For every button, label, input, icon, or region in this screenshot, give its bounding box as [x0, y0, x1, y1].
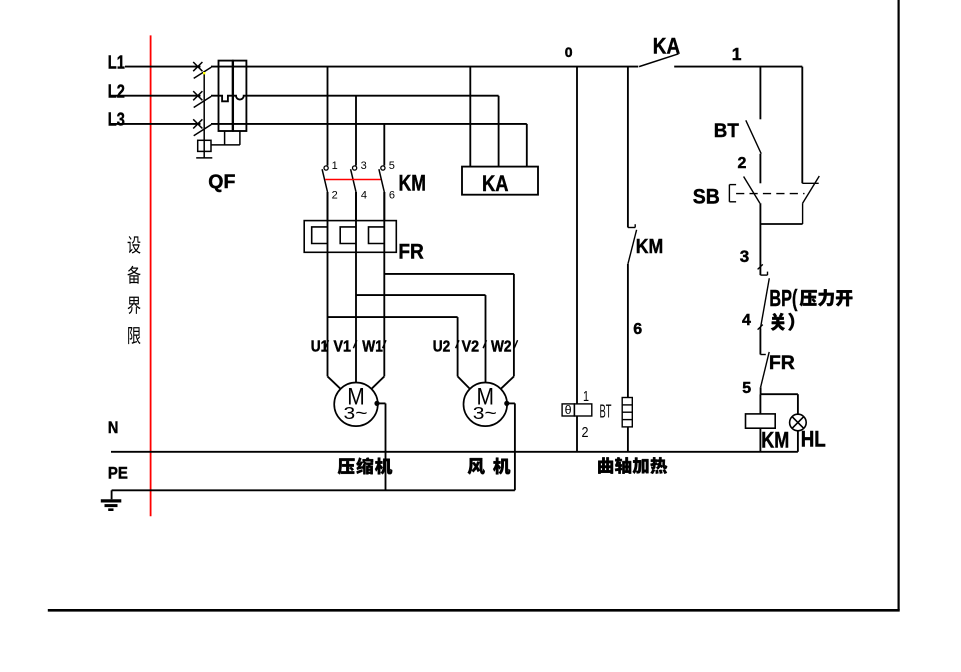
svg-text:KM: KM: [399, 171, 426, 196]
svg-text:KA: KA: [482, 171, 509, 196]
svg-text:N: N: [108, 418, 119, 437]
indicator lamp HL: [790, 414, 807, 431]
svg-text:1: 1: [732, 44, 742, 64]
wire L3 phase line: [110, 123, 527, 125]
wire node 1 down to BT contact: [759, 67, 761, 120]
wire thermostat to N: [576, 416, 578, 452]
wire L1 to KM contact 1: [327, 67, 329, 166]
pressure switch BP: [760, 272, 769, 329]
node 3 terminal mark: [758, 264, 763, 269]
svg-text:0: 0: [565, 44, 573, 60]
wire phase C to motor M1: [371, 192, 384, 389]
svg-text:QF: QF: [208, 171, 235, 193]
circuit breaker QF: [193, 61, 246, 158]
svg-text:6: 6: [389, 189, 395, 201]
wire L2 phase line (with QF trip-element dips): [110, 96, 499, 102]
ground symbol: [101, 501, 122, 510]
wire junction to node 3: [759, 224, 761, 275]
wire phase B tap to motor M2: [356, 295, 486, 382]
svg-text:L1: L1: [108, 53, 125, 73]
wire L1 to KA coil: [469, 67, 471, 167]
wire L2 to KA coil: [498, 96, 500, 167]
svg-text:5: 5: [742, 380, 751, 397]
heater element BT (crankcase heater): [622, 398, 632, 427]
svg-text:1: 1: [583, 388, 589, 405]
wire BT to SB: [759, 154, 761, 184]
svg-text:HL: HL: [801, 427, 826, 452]
svg-text:θ: θ: [565, 405, 572, 417]
wire node 5 junction: [760, 387, 798, 414]
svg-text:KM: KM: [636, 236, 664, 258]
thermostat BT (temperature switch): [562, 404, 592, 417]
svg-text:L2: L2: [108, 82, 125, 102]
svg-text:KM: KM: [761, 427, 789, 452]
svg-text:FR: FR: [769, 353, 795, 374]
switch SB (manual changeover): [729, 177, 804, 204]
svg-text:2: 2: [738, 155, 747, 172]
wire L1 phase line: [125, 66, 638, 68]
contactor aux contact KM (NO): [628, 224, 637, 264]
svg-text:3~: 3~: [473, 403, 497, 423]
motor M2 (M 3~): [464, 383, 508, 427]
wire L2 to KM contact 3: [355, 96, 357, 166]
svg-text:KA: KA: [653, 34, 680, 59]
contactor coil KM: [746, 414, 776, 428]
relay coil KA: [462, 167, 538, 195]
wire node 1 right branch down: [801, 67, 803, 184]
junction dot motor M2 PE: [504, 401, 509, 406]
KM mechanical link (red): [325, 179, 380, 181]
terminal labels U2 V2 W2: [433, 338, 518, 355]
wire node 0 to KM aux contact: [627, 67, 629, 228]
pin numbers 1 3 5 2 4 6: [332, 160, 395, 202]
label 压缩机 (compressor): [338, 457, 392, 474]
node 4 terminal mark: [758, 325, 763, 330]
switch SB right contact (NC): [802, 176, 819, 224]
svg-text:FR: FR: [398, 240, 424, 264]
svg-text:6: 6: [633, 321, 642, 338]
svg-text:BT: BT: [600, 402, 612, 422]
wire node 0 down to thermostat: [576, 67, 578, 404]
wire phase C tap to motor M2: [384, 274, 514, 389]
contactor KM main contacts: [322, 166, 385, 221]
motor M1 (M 3~): [334, 383, 378, 427]
svg-text:L3: L3: [108, 110, 125, 130]
label BP(压力开 关): [769, 285, 852, 331]
label 设备界限 (vertical): [127, 236, 140, 344]
wire phase B to motor M1: [355, 192, 357, 383]
svg-text:W1: W1: [362, 338, 383, 355]
relay contact KA (NO): [639, 54, 802, 67]
svg-text:3~: 3~: [344, 403, 368, 423]
wire phase A tap to motor M2: [328, 317, 470, 389]
junction dot motor M1 PE: [374, 401, 379, 406]
svg-text:W2: W2: [491, 338, 512, 355]
wire node 4 to FR contact: [759, 329, 761, 355]
wire heater to N: [627, 427, 629, 452]
svg-text:PE: PE: [108, 464, 128, 483]
wire L3 to KA coil: [526, 124, 528, 167]
svg-text:3: 3: [740, 247, 749, 266]
label 风机 (fan): [468, 458, 511, 475]
thermal relay FR heaters: [304, 221, 396, 253]
wire motor M1 to PE: [377, 403, 386, 490]
wire motor M2 to PE: [507, 403, 515, 490]
wire phase A to motor M1: [328, 192, 341, 389]
svg-text:4: 4: [742, 312, 751, 329]
svg-text:2: 2: [582, 424, 589, 441]
wire node 5 to lamp: [797, 394, 799, 414]
svg-text:1: 1: [332, 160, 338, 172]
wire SB to junction: [760, 203, 802, 224]
svg-text:SB: SB: [693, 185, 720, 208]
svg-text:5: 5: [389, 160, 395, 172]
svg-text:3: 3: [361, 160, 367, 172]
wire KM aux to heater: [627, 264, 629, 398]
wire KM coil to N: [759, 428, 761, 452]
svg-text:V1: V1: [334, 338, 352, 355]
thermal relay contact FR (NC): [760, 352, 769, 387]
wire L3 to KM contact 5: [383, 124, 385, 166]
svg-text:U2: U2: [433, 338, 451, 355]
equipment boundary line 设备界限: [150, 35, 152, 516]
svg-text:BP(: BP(: [769, 285, 797, 311]
svg-text:2: 2: [332, 189, 338, 201]
wire PE line: [112, 490, 515, 499]
svg-text:V2: V2: [462, 338, 480, 355]
svg-text:4: 4: [361, 189, 367, 201]
label 曲轴加热 (crankcase heating): [598, 457, 667, 474]
thermostat contact BT (NO): [746, 120, 761, 153]
terminal labels U1 V1 W1: [311, 338, 386, 355]
wire lamp to N: [797, 431, 799, 452]
svg-text:BT: BT: [714, 120, 739, 142]
wire N line: [111, 451, 798, 453]
